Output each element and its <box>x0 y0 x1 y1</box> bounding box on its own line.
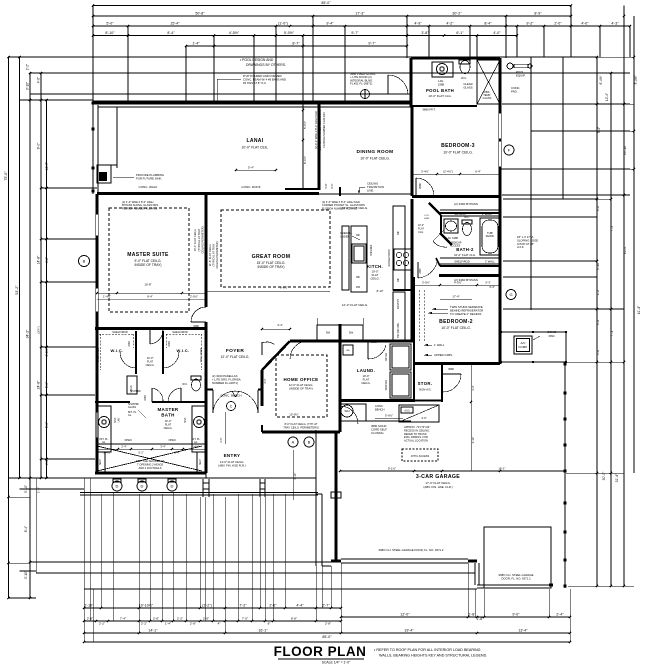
svg-text:INSIDE OF TRAY): INSIDE OF TRAY) <box>135 263 162 267</box>
svg-text:4": 4" <box>218 622 221 626</box>
svg-text:9'-0": 9'-0" <box>37 142 41 150</box>
svg-text:9'-1½": 9'-1½" <box>388 467 396 471</box>
svg-text:5'-8": 5'-8" <box>325 183 328 188</box>
svg-text:2' WALL: 2' WALL <box>485 260 495 264</box>
svg-text:NON-A/C: NON-A/C <box>419 388 431 392</box>
svg-text:30'-2": 30'-2" <box>452 11 462 15</box>
svg-text:4'-5½": 4'-5½" <box>229 31 240 35</box>
svg-text:4'-0": 4'-0" <box>37 77 41 83</box>
svg-text:3'-4½": 3'-4½" <box>634 75 638 84</box>
svg-text:SHELF/ROD: SHELF/ROD <box>200 348 203 363</box>
svg-text:2'-8": 2'-8" <box>153 617 159 621</box>
svg-text:2480: 2480 <box>144 395 147 401</box>
svg-text:D: D <box>116 483 119 488</box>
svg-text:BR. PAN. DBL.: BR. PAN. DBL. <box>397 322 400 338</box>
svg-text:10'-0" FLAT CEILG.: 10'-0" FLAT CEILG. <box>441 326 471 330</box>
svg-text:8'-10": 8'-10" <box>377 289 384 293</box>
svg-text:5'-6½": 5'-6½" <box>303 121 307 129</box>
svg-text:AND 2 FOOTRAILS: AND 2 FOOTRAILS <box>138 466 161 470</box>
svg-text:7'-1": 7'-1" <box>610 330 614 336</box>
svg-text:85'-0": 85'-0" <box>321 1 331 5</box>
svg-text:GLASS: GLASS <box>128 406 136 409</box>
svg-text:1'-4": 1'-4" <box>192 41 200 45</box>
svg-text:2' WALL: 2' WALL <box>482 212 492 216</box>
svg-text:DOOR, FL. NO. 9371.2: DOOR, FL. NO. 9371.2 <box>501 577 531 581</box>
svg-text:4'-4": 4'-4" <box>277 323 283 327</box>
svg-text:CONC.: CONC. <box>375 404 384 408</box>
svg-text:4'-0": 4'-0" <box>45 459 49 465</box>
svg-text:16'-7": 16'-7" <box>45 161 49 170</box>
svg-text:12'-4": 12'-4" <box>605 93 609 101</box>
svg-text:WALLS, BEARING HEIGHTS KEY AND: WALLS, BEARING HEIGHTS KEY AND STRUCTURA… <box>379 654 487 658</box>
svg-text:2'-0": 2'-0" <box>554 21 562 25</box>
svg-text:LANAI: LANAI <box>246 138 263 144</box>
svg-text:(TYPICAL AT TRAY: (TYPICAL AT TRAY <box>212 243 216 266</box>
svg-text:51'-2": 51'-2" <box>15 285 19 295</box>
svg-text:5'-9": 5'-9" <box>45 382 49 388</box>
svg-text:9'-3½": 9'-3½" <box>280 286 288 290</box>
svg-text:8'-0" FLAT CEILG. (TYP. AT: 8'-0" FLAT CEILG. (TYP. AT <box>284 422 317 426</box>
svg-text:OPEN: OPEN <box>168 439 175 442</box>
svg-text:2'-2": 2'-2" <box>26 64 30 70</box>
svg-text:DRAWINGS BY OTHERS.: DRAWINGS BY OTHERS. <box>246 63 286 67</box>
svg-text:MASTER SUITE: MASTER SUITE <box>127 252 169 258</box>
svg-text:50'-8": 50'-8" <box>195 11 205 15</box>
svg-text:PAD.: PAD. <box>511 90 518 94</box>
svg-text:6'-0": 6'-0" <box>331 183 334 188</box>
svg-text:36h: 36h <box>356 234 361 237</box>
svg-text:7' OPENING 2 HEADS: 7' OPENING 2 HEADS <box>137 462 164 466</box>
svg-text:3680: 3680 <box>448 367 454 371</box>
svg-text:FOR FUTURE SINK.: FOR FUTURE SINK. <box>136 176 162 180</box>
svg-text:EQUIP.: EQUIP. <box>516 74 526 78</box>
svg-text:RECESS IN CEILING,: RECESS IN CEILING, <box>404 428 430 432</box>
svg-text:FL #21 FL-16871): FL #21 FL-16871) <box>350 82 372 86</box>
svg-text:4'-4": 4'-4" <box>296 604 304 608</box>
svg-text:8'-7": 8'-7" <box>292 41 300 45</box>
svg-text:10'-0" FLAT CLG.: 10'-0" FLAT CLG. <box>454 253 476 257</box>
svg-text:• REFER TO ROOF PLAN FOR ALL I: • REFER TO ROOF PLAN FOR ALL INTERIOR LO… <box>374 648 481 652</box>
svg-text:CEILING PERIMETER): CEILING PERIMETER) <box>201 226 205 253</box>
svg-text:(ABV. FIN. HSE FLR.): (ABV. FIN. HSE FLR.) <box>218 464 245 468</box>
svg-text:10'-0" FLAT CEILG.: 10'-0" FLAT CEILG. <box>193 228 197 251</box>
svg-text:3'-3": 3'-3" <box>485 281 491 285</box>
svg-text:8'-4": 8'-4" <box>24 526 28 532</box>
svg-text:7'-3": 7'-3" <box>610 225 614 231</box>
svg-text:LOC.: LOC. <box>424 215 429 217</box>
svg-text:CORNER STACKED SLIDING DRS: CORNER STACKED SLIDING DRS <box>318 109 322 151</box>
svg-text:11'-6" FLAT CEILG.: 11'-6" FLAT CEILG. <box>208 243 212 266</box>
svg-text:ACTUAL LOCATION: ACTUAL LOCATION <box>404 439 428 443</box>
svg-text:3680 PKT.: 3680 PKT. <box>422 108 436 112</box>
svg-text:TRAY CEILG. PERIMETERS): TRAY CEILG. PERIMETERS) <box>283 425 319 429</box>
svg-text:30'-0": 30'-0" <box>602 471 606 480</box>
svg-text:2680: 2680 <box>418 183 422 189</box>
svg-text:2'-5½": 2'-5½" <box>190 295 198 299</box>
svg-text:CONC. BENCH: CONC. BENCH <box>220 394 241 398</box>
svg-text:GL.: GL. <box>128 414 132 417</box>
svg-text:GLASS: GLASS <box>463 86 472 90</box>
svg-text:2'-0": 2'-0" <box>219 437 223 442</box>
svg-text:10'-0½": 10'-0½" <box>289 413 298 417</box>
svg-text:CONC. ROOF: CONC. ROOF <box>241 185 260 189</box>
svg-text:3480: 3480 <box>193 324 199 328</box>
svg-text:1988: 1988 <box>438 83 445 87</box>
svg-text:BENCH: BENCH <box>375 407 384 411</box>
svg-text:10'-10½": 10'-10½" <box>139 604 154 608</box>
svg-text:3'-5½": 3'-5½" <box>422 281 430 285</box>
svg-text:1'-4": 1'-4" <box>165 622 171 626</box>
svg-text:4'-0": 4'-0" <box>421 416 426 420</box>
svg-text:7'-4": 7'-4" <box>120 617 126 621</box>
svg-text:6'-4": 6'-4" <box>475 170 481 174</box>
svg-text:8'-10": 8'-10" <box>293 473 297 480</box>
svg-text:3'-1": 3'-1" <box>264 378 267 383</box>
svg-text:DINING ROOM: DINING ROOM <box>357 149 394 155</box>
svg-text:14'-1": 14'-1" <box>148 628 158 632</box>
svg-text:1'-8": 1'-8" <box>476 617 484 621</box>
svg-text:W/H: W/H <box>344 409 349 413</box>
svg-text:9'-4": 9'-4" <box>326 21 334 25</box>
svg-text:FLORIDA NUMBER FL39-R23: FLORIDA NUMBER FL39-R23 <box>322 112 326 148</box>
svg-text:INSIDE OF TRAY): INSIDE OF TRAY) <box>258 265 285 269</box>
svg-text:2480: 2480 <box>168 341 171 347</box>
svg-text:2'-8": 2'-8" <box>325 622 331 626</box>
svg-text:PANTRY: PANTRY <box>396 299 400 310</box>
svg-text:W.C.: W.C. <box>464 216 470 219</box>
svg-text:10'-0" FLAT CLG.: 10'-0" FLAT CLG. <box>428 94 452 98</box>
svg-text:17'-4": 17'-4" <box>452 295 459 299</box>
svg-text:30h: 30h <box>397 277 400 282</box>
svg-text:2680: 2680 <box>371 341 377 344</box>
svg-text:85'-0": 85'-0" <box>322 635 332 639</box>
svg-text:3'-0": 3'-0" <box>596 205 600 211</box>
svg-text:OPEN: OPEN <box>124 439 131 442</box>
svg-text:POOL BATH: POOL BATH <box>426 88 454 93</box>
svg-text:10'-4": 10'-4" <box>623 246 627 254</box>
svg-text:CEILING PERIMETER): CEILING PERIMETER) <box>215 241 219 268</box>
svg-text:GREAT ROOM: GREAT ROOM <box>252 254 291 260</box>
svg-text:FOYER: FOYER <box>226 348 244 354</box>
svg-text:36h: 36h <box>326 331 331 335</box>
svg-text:A.F.F.: A.F.F. <box>517 245 524 249</box>
svg-text:LINE.: LINE. <box>367 188 374 192</box>
svg-text:8": 8" <box>268 622 271 626</box>
svg-text:1'-4½": 1'-4½" <box>103 295 111 299</box>
svg-text:10'-8": 10'-8" <box>144 283 151 287</box>
svg-text:34'-2": 34'-2" <box>26 329 30 338</box>
svg-text:CLOSING.: CLOSING. <box>371 431 385 435</box>
svg-text:ATTIC ACCESS: ATTIC ACCESS <box>411 454 430 458</box>
svg-text:3'-3": 3'-3" <box>489 285 495 289</box>
svg-text:8'-6½": 8'-6½" <box>303 156 307 164</box>
svg-text:4'-2": 4'-2" <box>446 21 454 25</box>
svg-text:4'-0": 4'-0" <box>493 31 501 35</box>
svg-text:GLASS: GLASS <box>483 96 492 100</box>
svg-text:MST.: MST. <box>184 417 187 423</box>
svg-text:LAUND.: LAUND. <box>357 368 375 373</box>
svg-text:COMP.: COMP. <box>518 345 528 349</box>
svg-text:W.I.C.: W.I.C. <box>177 348 190 353</box>
svg-text:W.C.: W.C. <box>182 383 188 386</box>
svg-text:10'-0" FLAT CEILG.: 10'-0" FLAT CEILG. <box>360 157 390 161</box>
svg-text:FLAT: FLAT <box>147 360 154 364</box>
svg-text:HDR.: HDR. <box>424 218 430 220</box>
svg-text:2480: 2480 <box>128 341 131 347</box>
svg-text:41'-4": 41'-4" <box>637 305 641 314</box>
svg-text:6'-1": 6'-1" <box>456 31 464 35</box>
svg-text:10'-0": 10'-0" <box>165 419 172 423</box>
svg-text:14'-8": 14'-8" <box>37 255 41 264</box>
svg-text:7'-0": 7'-0" <box>242 617 248 621</box>
svg-text:75'-0": 75'-0" <box>4 171 8 181</box>
svg-text:• POOL DESIGN AND: • POOL DESIGN AND <box>240 58 274 62</box>
svg-text:SHELF/ROD: SHELF/ROD <box>454 260 469 264</box>
svg-text:CONC. WALK: CONC. WALK <box>139 185 158 189</box>
svg-text:1' WALL: 1' WALL <box>434 343 445 347</box>
svg-text:STOR.: STOR. <box>418 381 433 386</box>
svg-text:LAV.: LAV. <box>118 417 121 422</box>
svg-text:3'-10": 3'-10" <box>24 571 28 579</box>
svg-text:2'-8": 2'-8" <box>203 617 209 621</box>
svg-text:36h: 36h <box>356 276 361 279</box>
svg-text:31'-4": 31'-4" <box>615 473 619 482</box>
svg-text:(2) 3460 BYPASS: (2) 3460 BYPASS <box>454 202 478 206</box>
svg-text:16'-1": 16'-1" <box>258 628 268 632</box>
svg-text:9'-7": 9'-7" <box>351 31 359 35</box>
svg-text:SHELF/ROD: SHELF/ROD <box>97 348 100 363</box>
svg-text:2'-4": 2'-4" <box>121 445 126 449</box>
svg-text:6'-6½": 6'-6½" <box>45 347 49 356</box>
svg-text:G: G <box>509 292 512 297</box>
svg-text:CEILG.: CEILG. <box>361 381 370 385</box>
svg-text:3'-4": 3'-4" <box>471 385 475 390</box>
svg-text:4'-3": 4'-3" <box>611 21 619 25</box>
svg-text:SHLV/REF.: SHLV/REF. <box>371 244 373 256</box>
svg-text:FLOOR PLAN: FLOOR PLAN <box>274 644 367 659</box>
svg-text:13'-4": 13'-4" <box>518 628 528 632</box>
svg-text:3'-10": 3'-10" <box>596 262 600 270</box>
svg-text:4'-0": 4'-0" <box>581 21 589 25</box>
svg-text:8'-8": 8'-8" <box>291 617 297 621</box>
svg-text:2'-2": 2'-2" <box>177 617 183 621</box>
svg-text:CEILG.: CEILG. <box>164 426 173 430</box>
svg-text:FLORIDA NUMBER FL39-R23: FLORIDA NUMBER FL39-R23 <box>122 206 158 210</box>
svg-text:LAV. 1988: LAV. 1988 <box>446 236 458 240</box>
svg-text:KITCH.: KITCH. <box>367 264 383 269</box>
svg-text:(2'-4½"): (2'-4½") <box>443 170 453 174</box>
svg-text:4'-2": 4'-2" <box>45 257 49 263</box>
svg-text:3'-4½": 3'-4½" <box>103 451 111 455</box>
svg-text:(TYPICAL AT TRAY: (TYPICAL AT TRAY <box>197 228 201 251</box>
svg-text:30h: 30h <box>397 230 400 235</box>
svg-text:5'-9": 5'-9" <box>45 422 49 428</box>
svg-text:2'-4": 2'-4" <box>556 612 564 616</box>
svg-text:PAD.: PAD. <box>549 334 556 338</box>
svg-text:CEILG.: CEILG. <box>370 277 379 281</box>
svg-text:W.C.: W.C. <box>461 76 467 80</box>
svg-text:16'-1": 16'-1" <box>498 467 505 471</box>
svg-text:BATH-2: BATH-2 <box>456 247 474 252</box>
svg-text:3'-4½": 3'-4½" <box>191 445 199 449</box>
svg-text:7'-2": 7'-2" <box>239 604 247 608</box>
svg-text:5'-0": 5'-0" <box>596 349 600 355</box>
svg-text:10'-0": 10'-0" <box>147 356 154 360</box>
svg-text:19'-4": 19'-4" <box>404 628 414 632</box>
svg-text:13'-10": 13'-10" <box>623 145 627 155</box>
svg-text:DBL. TILE SHOWER AT: DBL. TILE SHOWER AT <box>136 459 164 463</box>
svg-text:APPROX. 72"x72"x24": APPROX. 72"x72"x24" <box>404 425 430 429</box>
svg-text:2'-8": 2'-8" <box>190 622 196 626</box>
svg-text:WASHER: WASHER <box>385 380 388 391</box>
svg-text:TO CREATE 2" RECESS: TO CREATE 2" RECESS <box>450 312 481 316</box>
svg-text:3'-10": 3'-10" <box>26 82 30 90</box>
svg-text:3'-8": 3'-8" <box>421 31 429 35</box>
svg-text:8'-9": 8'-9" <box>534 11 542 15</box>
svg-text:CLG.: CLG. <box>418 231 424 234</box>
svg-text:ENG. DRWGS. FOR: ENG. DRWGS. FOR <box>404 435 428 439</box>
svg-text:FLORIDA NUMBER FL39-R23: FLORIDA NUMBER FL39-R23 <box>322 206 358 210</box>
svg-text:24'-8": 24'-8" <box>37 380 41 389</box>
svg-text:9'-0": 9'-0" <box>512 612 520 616</box>
svg-text:SHATFRD: SHATFRD <box>130 390 141 393</box>
svg-text:9'-7": 9'-7" <box>368 41 376 45</box>
svg-text:36h: 36h <box>349 331 354 335</box>
svg-text:#3 TIES AT 8" O.C.: #3 TIES AT 8" O.C. <box>243 81 267 85</box>
svg-text:3'-10": 3'-10" <box>471 437 475 444</box>
svg-text:3'-4": 3'-4" <box>160 445 165 449</box>
svg-text:(1'-0"): (1'-0") <box>278 21 288 25</box>
svg-text:12'-0" FLAT CEILG.: 12'-0" FLAT CEILG. <box>342 303 368 307</box>
svg-text:BEDROOM-2: BEDROOM-2 <box>439 319 473 325</box>
svg-text:1'-6": 1'-6" <box>37 487 41 493</box>
svg-text:12'-0" FLAT CEILG.: 12'-0" FLAT CEILG. <box>221 355 250 359</box>
svg-text:5'-4": 5'-4" <box>248 166 254 170</box>
svg-text:5'-1": 5'-1" <box>138 451 143 455</box>
svg-text:3'-4½": 3'-4½" <box>421 170 429 174</box>
svg-text:DRYER: DRYER <box>385 353 388 362</box>
svg-text:MASTER: MASTER <box>157 407 178 412</box>
svg-text:C: C <box>230 404 233 408</box>
svg-text:D: D <box>141 483 144 488</box>
svg-text:2680: 2680 <box>420 268 422 274</box>
svg-text:D: D <box>171 483 174 488</box>
svg-text:6'-4½": 6'-4½" <box>599 75 603 84</box>
svg-text:REFER TO TRUSS: REFER TO TRUSS <box>404 432 427 436</box>
svg-text:CEILG.: CEILG. <box>146 363 155 367</box>
svg-text:SEAT: SEAT <box>199 458 202 464</box>
svg-text:5'-0½": 5'-0½" <box>284 31 295 35</box>
svg-text:8'-4": 8'-4" <box>167 31 175 35</box>
svg-text:2'-2": 2'-2" <box>99 622 105 626</box>
svg-text:(1'-2"): (1'-2") <box>202 604 212 608</box>
svg-text:10'-0" FLAT CEILG.: 10'-0" FLAT CEILG. <box>443 151 473 155</box>
svg-text:UPPER CABS.: UPPER CABS. <box>434 353 453 357</box>
svg-text:SCALE 1/4" = 1'-0": SCALE 1/4" = 1'-0" <box>322 661 351 665</box>
svg-text:B: B <box>308 439 311 444</box>
svg-text:B: B <box>83 258 86 263</box>
svg-text:5'-4": 5'-4" <box>597 127 601 133</box>
svg-text:SHWR.: SHWR. <box>486 234 495 238</box>
svg-text:15'-4": 15'-4" <box>170 21 180 25</box>
svg-text:(2½"): (2½") <box>37 326 41 333</box>
svg-text:SHELF/ROD: SHELF/ROD <box>172 330 187 334</box>
svg-text:5'-0": 5'-0" <box>106 21 114 25</box>
svg-text:SEAT: SEAT <box>99 458 102 464</box>
svg-text:RANGE/HOOD: RANGE/HOOD <box>388 249 391 266</box>
svg-text:4'-5½": 4'-5½" <box>454 281 462 285</box>
svg-text:(ABV. FIN. HSE. FLR.): (ABV. FIN. HSE. FLR.) <box>423 485 452 489</box>
svg-text:GL.: GL. <box>194 441 198 444</box>
svg-text:SHELF/ROD: SHELF/ROD <box>112 330 127 334</box>
svg-text:6080 O.H. STEEL GARAGE DOOR, F: 6080 O.H. STEEL GARAGE DOOR, FL. NO. 937… <box>379 548 444 552</box>
svg-text:W.I.C.: W.I.C. <box>111 348 124 353</box>
svg-text:NUMBER FL-10871): NUMBER FL-10871) <box>212 381 238 385</box>
svg-text:8'-4": 8'-4" <box>484 21 492 25</box>
svg-text:12'-0": 12'-0" <box>400 612 410 616</box>
svg-text:FLAT: FLAT <box>165 423 172 427</box>
svg-text:8'-4": 8'-4" <box>147 295 153 299</box>
svg-text:2'-7": 2'-7" <box>322 604 330 608</box>
svg-text:2'-4": 2'-4" <box>174 451 179 455</box>
svg-text:10'-0" FLAT CEIL.: 10'-0" FLAT CEIL. <box>242 146 269 150</box>
svg-text:3-CAR GARAGE: 3-CAR GARAGE <box>416 474 460 480</box>
svg-text:2'-2": 2'-2" <box>141 622 147 626</box>
svg-text:GL.: GL. <box>102 441 106 444</box>
svg-text:HOME OFFICE: HOME OFFICE <box>283 377 318 382</box>
svg-text:2'-6": 2'-6" <box>269 604 277 608</box>
svg-text:17'-3": 17'-3" <box>355 11 365 15</box>
svg-text:ENTRY: ENTRY <box>224 453 241 458</box>
svg-text:A/1.0: A/1.0 <box>404 410 410 413</box>
svg-text:BATH: BATH <box>161 413 175 418</box>
svg-text:8'-10": 8'-10" <box>105 31 115 35</box>
svg-text:A: A <box>292 439 295 444</box>
svg-text:4'-9": 4'-9" <box>414 21 422 25</box>
svg-text:5'-6½": 5'-6½" <box>385 414 393 418</box>
svg-text:BEDROOM-3: BEDROOM-3 <box>441 143 475 149</box>
svg-text:2'-2": 2'-2" <box>596 289 600 295</box>
svg-text:3'-4": 3'-4" <box>596 319 600 325</box>
svg-text:(INSIDE OF TRAY): (INSIDE OF TRAY) <box>289 387 313 391</box>
svg-text:(2) 4'-0" WDE X 8'-0" HIGH SGD: (2) 4'-0" WDE X 8'-0" HIGH SGD <box>314 111 318 149</box>
svg-text:9'-2": 9'-2" <box>526 21 534 25</box>
